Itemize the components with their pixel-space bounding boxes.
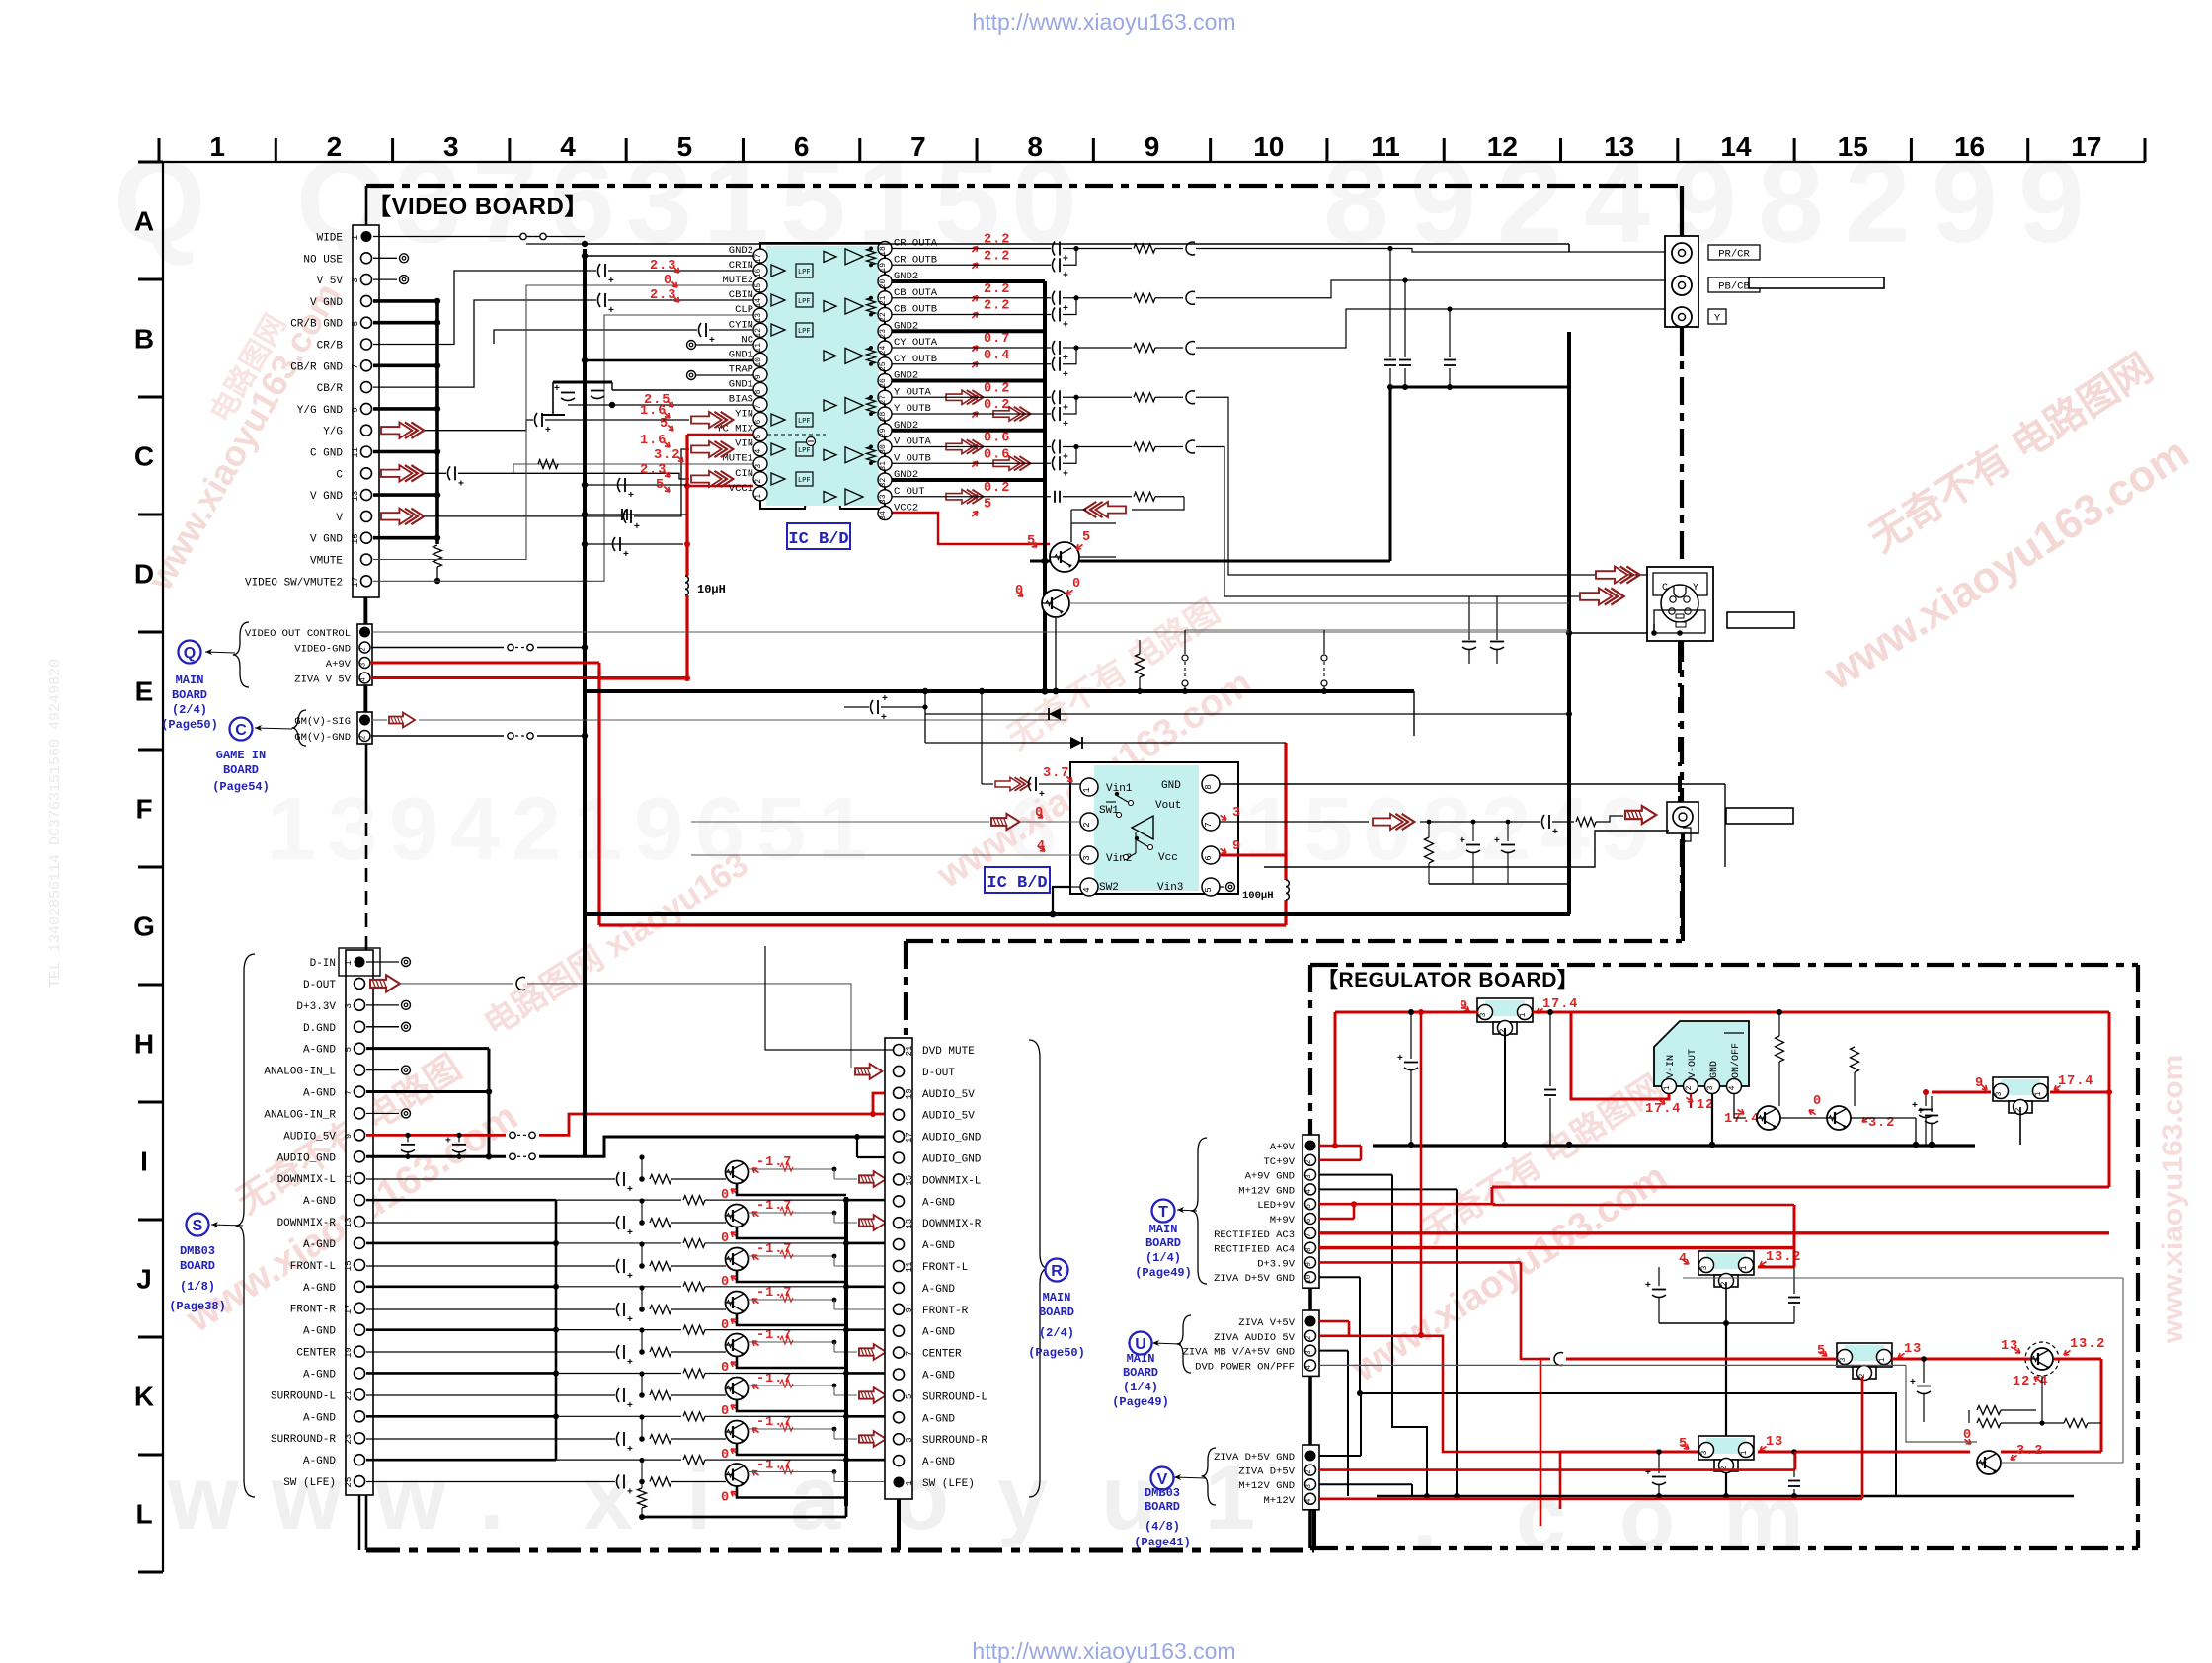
svg-text:A-GND: A-GND — [922, 1284, 955, 1296]
svg-text:RECTIFIED AC3: RECTIFIED AC3 — [1214, 1229, 1295, 1241]
svg-text:8: 8 — [1027, 131, 1043, 162]
svg-text:19: 19 — [879, 263, 888, 273]
svg-text:+: + — [627, 1184, 633, 1195]
wire A-GND 5/7 — [366, 1047, 489, 1050]
svg-text:0.2: 0.2 — [984, 381, 1010, 396]
svg-text:Vin2: Vin2 — [1106, 853, 1132, 865]
wire to PR/CR jack — [1215, 249, 1665, 253]
wire CR/B — [373, 271, 596, 345]
svg-text:TEL 13402856114 DC3763151560 4: TEL 13402856114 DC3763151560 49249820 — [47, 659, 64, 988]
svg-text:5: 5 — [905, 1394, 914, 1399]
voltage labels IC1 right — [970, 245, 980, 255]
svg-text:A-GND: A-GND — [922, 1327, 955, 1339]
svg-text:C OUT: C OUT — [894, 486, 925, 498]
svg-text:CB OUTB: CB OUTB — [894, 304, 937, 316]
svg-text:3: 3 — [344, 1003, 354, 1008]
svg-text:0.6: 0.6 — [984, 432, 1010, 446]
svg-text:1: 1 — [1082, 787, 1092, 792]
svg-text:100µH: 100µH — [1242, 890, 1274, 902]
wire A-GND row pin 24 — [366, 1459, 556, 1462]
svg-text:M+12V: M+12V — [1263, 1495, 1295, 1507]
svg-text:【VIDEO BOARD】: 【VIDEO BOARD】 — [367, 194, 589, 220]
svg-text:ZIVA V+5V: ZIVA V+5V — [1238, 1317, 1295, 1329]
svg-text:A-GND: A-GND — [922, 1371, 955, 1383]
svg-text:24: 24 — [879, 346, 888, 356]
svg-text:3: 3 — [351, 277, 360, 282]
svg-text:H: H — [134, 1029, 154, 1060]
svg-text:28: 28 — [879, 412, 888, 422]
svg-text:o: o — [1619, 1467, 1675, 1568]
svg-text:A-GND: A-GND — [303, 1283, 336, 1295]
svg-text:7: 7 — [910, 131, 926, 162]
svg-text:CY OUTA: CY OUTA — [894, 337, 938, 349]
regulator IC REG3 — [1837, 1343, 1892, 1367]
connector S-video C/Y — [1647, 567, 1713, 641]
svg-text:(Page50): (Page50) — [161, 718, 218, 732]
svg-text:(Page41): (Page41) — [1134, 1536, 1191, 1549]
red AC3/AC4 long rails — [1319, 1231, 2109, 1234]
cap left of reg5 — [1925, 1092, 1927, 1106]
wire CB/R — [373, 300, 596, 387]
svg-text:9: 9 — [634, 780, 683, 879]
svg-text:17: 17 — [344, 1304, 354, 1314]
svg-text:22: 22 — [879, 312, 888, 322]
blank rect right of S-video — [1727, 612, 1794, 628]
cap row y521 — [585, 514, 687, 515]
svg-text:10µH: 10µH — [697, 583, 726, 596]
svg-text:1: 1 — [1740, 1450, 1749, 1455]
svg-text:CYIN: CYIN — [729, 319, 753, 331]
svg-text:+: + — [1063, 452, 1068, 463]
svg-text:A-GND: A-GND — [303, 1412, 336, 1424]
channel FRONT-L — [366, 1265, 615, 1267]
red feed reg4 — [1560, 1451, 1698, 1454]
label IC B/D 2 — [985, 867, 1050, 893]
svg-text:7: 7 — [351, 364, 360, 369]
svg-text:YIN: YIN — [735, 409, 753, 421]
svg-text:9: 9 — [1232, 839, 1241, 854]
SW LFE bottom — [638, 1488, 647, 1508]
wire GND2 pin17 — [585, 255, 753, 257]
svg-text:VCC2: VCC2 — [894, 503, 918, 515]
svg-text:13: 13 — [1766, 1435, 1783, 1450]
transistor Q2 (D row 2) — [1042, 590, 1069, 617]
svg-text:15: 15 — [905, 1175, 914, 1186]
ZIVA D+5V GND black — [1319, 1276, 1360, 1278]
black bus regulator y1159 — [1373, 1144, 1975, 1147]
svg-text:-1.7: -1.7 — [756, 1199, 792, 1214]
svg-text:w: w — [167, 1448, 239, 1548]
wire D-row long thin y638 — [1185, 629, 1569, 631]
svg-text:LPF: LPF — [798, 298, 811, 306]
svg-text:SW (LFE): SW (LFE) — [283, 1477, 336, 1489]
wire MUTE1 — [513, 464, 652, 473]
svg-text:5: 5 — [1303, 780, 1353, 879]
svg-text:16: 16 — [754, 269, 763, 278]
svg-text:2: 2 — [1305, 1160, 1313, 1165]
svg-text:1.6: 1.6 — [640, 434, 667, 448]
svg-text:-1.7: -1.7 — [756, 1242, 792, 1257]
svg-text:LPF: LPF — [798, 328, 811, 336]
svg-text:+: + — [545, 425, 551, 436]
brace Q — [233, 622, 249, 687]
svg-text:A-GND: A-GND — [922, 1413, 955, 1425]
regulator IC REG1 — [1477, 998, 1533, 1022]
wire Vout pin7 — [1220, 821, 1369, 823]
svg-text:0: 0 — [721, 1275, 730, 1290]
svg-text:LPF: LPF — [798, 418, 811, 426]
svg-text:+: + — [445, 1135, 451, 1146]
svg-text:(Page38): (Page38) — [169, 1300, 226, 1313]
wire A-GND row pin 12 — [366, 1199, 556, 1202]
svg-text:0.4: 0.4 — [984, 349, 1010, 363]
svg-text:11: 11 — [905, 1262, 914, 1273]
svg-text:Y: Y — [1714, 313, 1721, 325]
svg-text:V GND: V GND — [310, 534, 343, 546]
svg-text:0: 0 — [1363, 780, 1412, 879]
arrows into YIN/VIN/CIN — [691, 412, 733, 428]
svg-text:7: 7 — [344, 1090, 354, 1095]
svg-text:PR/CR: PR/CR — [1718, 249, 1750, 261]
svg-text:21: 21 — [905, 1046, 914, 1057]
A-GND rows audio — [844, 1197, 848, 1506]
wire GND1 pin8 cluster — [553, 381, 612, 384]
svg-text:+: + — [1063, 270, 1068, 280]
svg-text:Vin1: Vin1 — [1106, 783, 1133, 795]
wire C + arrow — [381, 465, 424, 482]
svg-text:6: 6 — [1204, 855, 1214, 860]
connector PR/CR PB/CB Y jacks — [1665, 236, 1698, 327]
svg-text:VCC1: VCC1 — [729, 483, 753, 495]
svg-text:WIDE: WIDE — [317, 233, 344, 245]
brace R — [1029, 1040, 1049, 1497]
svg-text:MAIN: MAIN — [176, 673, 204, 687]
svg-text:13: 13 — [344, 1218, 354, 1228]
svg-text:DOWNMIX-R: DOWNMIX-R — [277, 1218, 337, 1229]
svg-text:3: 3 — [1305, 1350, 1313, 1355]
svg-text:30: 30 — [879, 444, 888, 454]
svg-text:T: T — [1158, 1204, 1168, 1221]
svg-text:MUTE2: MUTE2 — [722, 275, 753, 286]
svg-text:6: 6 — [754, 419, 763, 424]
svg-text:RECTIFIED AC4: RECTIFIED AC4 — [1214, 1244, 1295, 1256]
svg-text:15: 15 — [344, 1260, 354, 1271]
res above Q5/Q6 — [1776, 1036, 1784, 1062]
channel DOWNMIX-L — [366, 1178, 615, 1180]
svg-text:AUDIO_5V: AUDIO_5V — [922, 1111, 975, 1123]
svg-text:1: 1 — [754, 494, 763, 499]
svg-text:D-OUT: D-OUT — [303, 980, 336, 991]
svg-text:13: 13 — [905, 1219, 914, 1229]
svg-text:ZIVA V 5V: ZIVA V 5V — [294, 674, 351, 686]
svg-text:15: 15 — [351, 533, 360, 544]
svg-text:(4/8): (4/8) — [1145, 1520, 1180, 1534]
svg-text:2: 2 — [1481, 780, 1531, 879]
svg-text:AUDIO_5V: AUDIO_5V — [283, 1131, 336, 1143]
svg-text:GND1: GND1 — [729, 378, 753, 390]
svg-text:+: + — [1397, 1053, 1403, 1064]
svg-text:+: + — [628, 490, 634, 501]
red wire ZIVA V 5V — [371, 676, 687, 679]
svg-text:2: 2 — [1082, 822, 1092, 827]
svg-text:IC B/D: IC B/D — [987, 874, 1047, 893]
svg-text:5: 5 — [344, 1047, 354, 1052]
svg-text:29: 29 — [879, 428, 888, 437]
svg-text:A-GND: A-GND — [303, 1088, 336, 1100]
wire A-GND row pin 16 — [366, 1286, 556, 1289]
svg-text:FRONT-L: FRONT-L — [290, 1261, 336, 1273]
svg-text:SW2: SW2 — [1099, 882, 1119, 894]
svg-text:0: 0 — [721, 1491, 730, 1506]
connector C (GAME IN BOARD) — [357, 712, 372, 744]
svg-text:Vout: Vout — [1155, 800, 1181, 812]
channel SURROUND-R — [366, 1438, 615, 1440]
transistor Q6 — [1827, 1106, 1851, 1130]
red feed to V-IN — [1571, 1012, 1669, 1099]
svg-text:7: 7 — [1305, 1233, 1313, 1238]
svg-text:4: 4 — [1540, 780, 1590, 879]
svg-text:L: L — [135, 1499, 152, 1530]
svg-text:5: 5 — [660, 417, 669, 432]
blank rect right of PB/CB — [1749, 277, 1884, 288]
svg-text:DOWNMIX-R: DOWNMIX-R — [922, 1219, 982, 1230]
svg-text:www.xiaoyu163.com: www.xiaoyu163.com — [2157, 1055, 2189, 1344]
label Q — [179, 641, 201, 664]
connector U (MAIN BOARD 1/4) — [1303, 1310, 1319, 1376]
svg-text:BOARD: BOARD — [223, 763, 259, 777]
wire V + arrow — [381, 509, 424, 525]
transistor Q15 audio buffer — [726, 1378, 749, 1400]
svg-text:ANALOG-IN_R: ANALOG-IN_R — [264, 1109, 336, 1121]
svg-text:2: 2 — [360, 736, 368, 741]
heavy E bus y700 — [585, 689, 1414, 693]
svg-text:1: 1 — [344, 960, 354, 965]
svg-text:2.3: 2.3 — [650, 288, 676, 303]
svg-text:BOARD: BOARD — [1145, 1500, 1180, 1514]
svg-text:B: B — [134, 324, 154, 355]
svg-text:AUDIO_GND: AUDIO_GND — [922, 1154, 982, 1166]
transistor Q12 audio buffer — [726, 1248, 749, 1271]
svg-text:NO USE: NO USE — [303, 254, 343, 266]
svg-text:A-GND: A-GND — [303, 1045, 336, 1057]
svg-text:(Page54): (Page54) — [212, 780, 270, 794]
term pin5 — [1220, 886, 1224, 888]
svg-text:4: 4 — [450, 780, 500, 879]
svg-text:+: + — [1910, 1377, 1916, 1387]
black bottom bus regulator — [1377, 1495, 2074, 1498]
svg-text:+: + — [709, 335, 715, 346]
svg-text:CRIN: CRIN — [729, 260, 753, 272]
res/cap drops on E bus — [1136, 654, 1145, 677]
IC2 internals — [1132, 816, 1153, 839]
svg-text:2.2: 2.2 — [984, 233, 1010, 248]
main vertical bus x592 — [583, 249, 587, 914]
svg-text:+: + — [1039, 789, 1045, 800]
channel SW (LFE) — [366, 1481, 615, 1483]
svg-text:LPF: LPF — [798, 447, 811, 455]
S-video gnd wires — [1653, 624, 1655, 633]
svg-text:+: + — [608, 276, 614, 286]
gnd return — [737, 1400, 846, 1411]
svg-text:A+9V: A+9V — [326, 659, 352, 671]
svg-text:BOARD: BOARD — [1145, 1236, 1181, 1250]
svg-text:+: + — [458, 478, 464, 489]
svg-text:15: 15 — [754, 283, 763, 293]
svg-text:Q: Q — [184, 645, 196, 662]
wire IC1 GND bus — [1043, 281, 1047, 480]
resistors below Q7 — [2041, 1376, 2043, 1423]
svg-text:2: 2 — [1499, 1028, 1508, 1033]
svg-text:TRAP: TRAP — [729, 363, 753, 375]
ruler top — [159, 161, 2145, 163]
svg-text:VIDEO OUT CONTROL: VIDEO OUT CONTROL — [245, 628, 351, 640]
reg4 caps — [1658, 1452, 1660, 1473]
connector S (DMB03 BOARD 1/8) — [346, 950, 373, 1495]
svg-text:3: 3 — [1839, 1357, 1848, 1362]
svg-text:GND2: GND2 — [729, 245, 753, 257]
svg-text:17.4: 17.4 — [1542, 997, 1578, 1012]
brace T — [1191, 1138, 1207, 1284]
svg-text:3: 3 — [1995, 1091, 2004, 1096]
svg-text:11: 11 — [351, 447, 360, 458]
gnd return — [737, 1271, 846, 1282]
svg-text:PB/CB: PB/CB — [1718, 281, 1750, 293]
svg-text:0: 0 — [664, 274, 672, 288]
svg-text:F: F — [135, 794, 152, 825]
svg-text:9: 9 — [344, 1134, 354, 1139]
svg-text:20: 20 — [879, 279, 888, 289]
svg-text:+: + — [554, 383, 560, 394]
svg-text:Y OUTB: Y OUTB — [894, 403, 931, 415]
red wire VCC2 — [892, 513, 1050, 544]
svg-text:3.2: 3.2 — [654, 448, 680, 463]
svg-text:21: 21 — [879, 295, 888, 305]
V pin wires — [1319, 1455, 1361, 1457]
svg-text:CIN: CIN — [735, 468, 753, 480]
svg-text:SURROUND-R: SURROUND-R — [922, 1435, 987, 1447]
red vertical from rail to U area — [1420, 1012, 1423, 1335]
svg-text:V OUTA: V OUTA — [894, 436, 932, 448]
svg-text:9: 9 — [905, 1307, 914, 1312]
svg-text:5: 5 — [984, 498, 992, 513]
wire output pair pins 21/22 — [892, 297, 1051, 299]
red wire A+9V down — [597, 669, 600, 925]
svg-text:13: 13 — [754, 313, 763, 323]
svg-text:+: + — [608, 305, 614, 316]
svg-text:A+9V GND: A+9V GND — [1245, 1171, 1295, 1183]
svg-text:4: 4 — [1082, 887, 1092, 892]
transistor Q5 — [1757, 1106, 1780, 1130]
reg1 pin2 down — [1504, 1028, 1506, 1145]
wire Y/G + arrow — [381, 422, 424, 438]
svg-text:5: 5 — [656, 478, 665, 493]
svg-text:1: 1 — [1519, 1012, 1528, 1017]
svg-text:13: 13 — [2001, 1339, 2018, 1354]
channel SURROUND-L — [366, 1394, 615, 1396]
svg-text:(Page50): (Page50) — [1028, 1346, 1085, 1360]
gnd return — [737, 1357, 846, 1368]
label V — [1151, 1467, 1174, 1490]
wire output pair pins 24/25 — [892, 347, 1051, 349]
bus x592 audio up — [583, 914, 587, 1156]
svg-text:CB/R GND: CB/R GND — [290, 361, 343, 373]
reg2 caps — [1651, 1266, 1695, 1268]
jack F (video out) — [1667, 802, 1698, 833]
svg-text:3: 3 — [1232, 806, 1241, 821]
svg-text:DOWNMIX-L: DOWNMIX-L — [922, 1175, 981, 1187]
cap right Q6 — [1931, 1096, 1933, 1112]
connector Q (MAIN BOARD 2/4) — [357, 624, 372, 685]
wire A-GND row pin 18 — [366, 1328, 556, 1331]
svg-text:A-GND: A-GND — [922, 1457, 955, 1468]
svg-text:23: 23 — [344, 1434, 354, 1445]
red D+3.9V — [1319, 1261, 1521, 1264]
wire BIAS — [568, 404, 753, 406]
svg-text:11: 11 — [1371, 131, 1400, 162]
svg-text:MAIN: MAIN — [1149, 1223, 1178, 1236]
arrow left-pointing near VCC2 — [1084, 502, 1126, 517]
svg-text:5: 5 — [756, 780, 806, 879]
U pin wires — [1319, 1320, 1349, 1323]
wire GND1 pin10 — [585, 359, 753, 362]
red feed reg3 — [1566, 1358, 1837, 1361]
diode wires E row — [924, 691, 926, 743]
svg-text:1: 1 — [351, 235, 360, 240]
svg-text:.: . — [479, 1448, 505, 1548]
svg-text:R: R — [1051, 1263, 1063, 1280]
svg-text:MAIN: MAIN — [1043, 1291, 1071, 1305]
connector V (DMB03 BOARD 4/8) — [1303, 1445, 1319, 1510]
brace C — [292, 710, 306, 746]
svg-text:V-OUT: V-OUT — [1688, 1049, 1698, 1078]
arrows into S-video — [1596, 566, 1640, 583]
svg-text:13: 13 — [1604, 131, 1634, 162]
svg-text:ZIVA D+5V GND: ZIVA D+5V GND — [1214, 1273, 1295, 1285]
wire D.GND — [366, 1026, 399, 1028]
svg-text:2: 2 — [327, 131, 343, 162]
svg-text:VIDEO SW/VMUTE2: VIDEO SW/VMUTE2 — [245, 577, 343, 589]
gnd return — [737, 1487, 846, 1498]
svg-text:1: 1 — [1740, 1265, 1749, 1270]
transistor Q11 audio buffer — [726, 1205, 749, 1227]
wire A-GND row pin 22 — [366, 1415, 556, 1418]
svg-text:2: 2 — [1720, 1281, 1729, 1286]
svg-text:DMB03: DMB03 — [180, 1244, 215, 1258]
svg-text:m: m — [1723, 1467, 1804, 1568]
svg-text:1: 1 — [1663, 1085, 1672, 1090]
transistor Q16 audio buffer — [726, 1421, 749, 1444]
svg-text:DVD MUTE: DVD MUTE — [922, 1046, 975, 1058]
svg-text:3: 3 — [754, 464, 763, 469]
svg-text:9: 9 — [1305, 1262, 1313, 1267]
svg-text:+: + — [1645, 1280, 1651, 1291]
svg-text:3: 3 — [1305, 1174, 1313, 1179]
svg-text:2.3: 2.3 — [640, 463, 667, 478]
op-amp internals IC1 — [771, 265, 785, 277]
red wire A+9V — [371, 662, 599, 665]
svg-text:4: 4 — [1728, 1085, 1737, 1090]
svg-text:ZIVA D+5V GND: ZIVA D+5V GND — [1214, 1452, 1295, 1464]
svg-text:31: 31 — [879, 461, 888, 471]
svg-text:【REGULATOR BOARD】: 【REGULATOR BOARD】 — [1317, 969, 1578, 991]
svg-text:3: 3 — [328, 780, 377, 879]
transistor Q7 dashed — [2025, 1342, 2059, 1376]
wire ANALOG-IN_L/R — [366, 1069, 399, 1071]
label U — [1130, 1332, 1152, 1355]
wire CYIN cap — [494, 330, 697, 344]
svg-text:0: 0 — [721, 1318, 730, 1333]
svg-text:GND: GND — [1161, 780, 1181, 792]
